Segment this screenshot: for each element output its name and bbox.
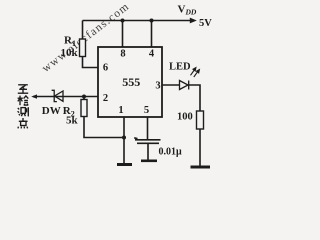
svg-text:8: 8 [120, 49, 125, 60]
wire 100-ohm resistor to ground [199, 129, 201, 166]
node junction dot pin8 rail [121, 19, 125, 23]
ground (pin1 / R2 net) [117, 163, 132, 166]
capacitor C1 0.01u [134, 138, 160, 144]
svg-text:0.01μ: 0.01μ [159, 147, 183, 158]
wire pin 4 stem [151, 21, 153, 48]
svg-text:5k: 5k [66, 115, 79, 127]
op-amp U1 : 555 timer IC body [98, 47, 162, 117]
wire pin 8 stem [122, 21, 124, 48]
wire R2 bottom to ground junction [84, 117, 124, 138]
wire R1 branch drop [82, 21, 84, 40]
zener diode DW [52, 90, 63, 101]
char zhi [18, 85, 28, 93]
char ce [18, 107, 29, 116]
arrow to test point [31, 94, 37, 98]
svg-text:100: 100 [177, 112, 193, 123]
char jian [18, 96, 29, 106]
node junction dot R2 top [82, 95, 86, 99]
svg-text:4: 4 [149, 49, 155, 60]
LED emission arrows [191, 68, 200, 77]
resistor R2 [81, 100, 87, 117]
ground (capacitor) [141, 160, 157, 163]
svg-text:10k: 10k [61, 47, 79, 59]
LED D1 [180, 81, 189, 90]
wire pin 1 to ground [123, 117, 125, 164]
node label: Chinese vertical text "to test point" drawn as paths [18, 85, 29, 129]
wire VDD top rail [83, 20, 194, 22]
wire pin 3 to LED [162, 84, 180, 86]
svg-text:2: 2 [103, 93, 108, 104]
wire pin 2 input [33, 96, 98, 98]
wire LED cathode to corner and down to resistor [189, 85, 201, 111]
wire pin 5 to capacitor [147, 117, 149, 139]
ground (LED branch) [191, 166, 211, 169]
VDD arrow head [190, 18, 197, 24]
svg-text:LED: LED [169, 62, 191, 73]
wire capacitor to ground [147, 144, 149, 161]
resistor R1 [80, 39, 86, 57]
svg-text:555: 555 [122, 75, 140, 89]
node junction dot pin4 rail [150, 19, 154, 23]
svg-text:6: 6 [103, 63, 108, 74]
wire R2 top lead [83, 97, 85, 100]
svg-text:1: 1 [118, 105, 123, 116]
resistor R3 100 [197, 111, 204, 129]
svg-text:5V: 5V [199, 18, 212, 29]
wire below R1 to pin 6 [83, 57, 99, 68]
svg-text:3: 3 [155, 81, 160, 92]
svg-text:5: 5 [144, 105, 149, 116]
char dian [18, 118, 28, 128]
svg-text:DW: DW [42, 105, 61, 117]
node junction dot ground net [122, 136, 126, 140]
